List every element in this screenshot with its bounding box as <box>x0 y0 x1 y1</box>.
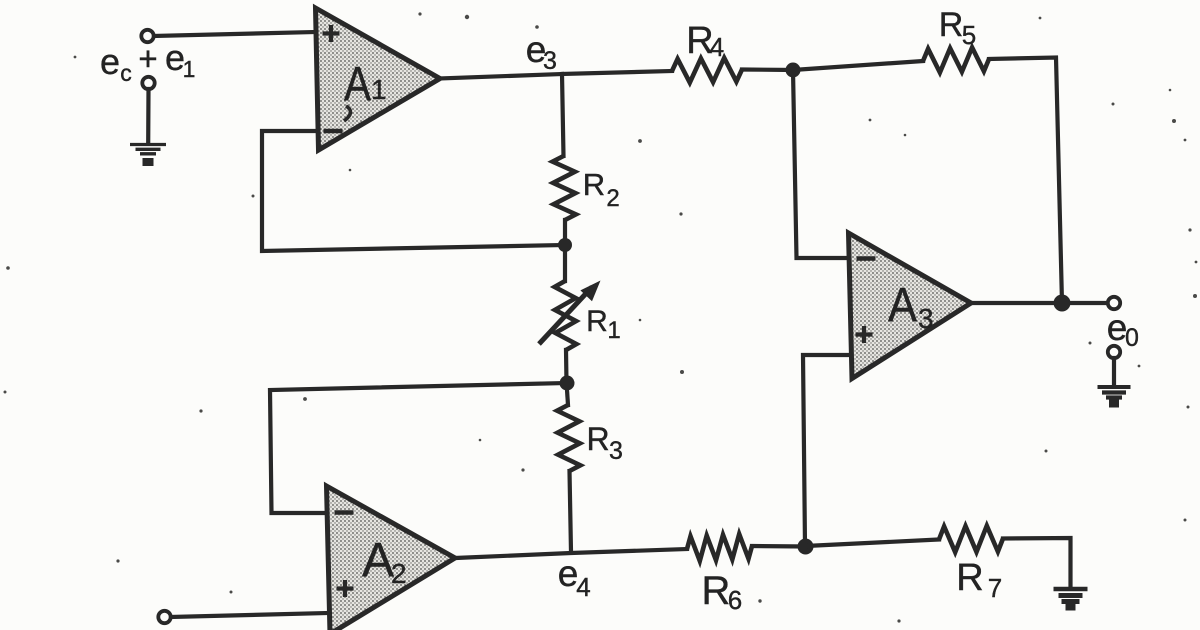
svg-text:A: A <box>362 534 394 587</box>
svg-text:1: 1 <box>183 56 196 82</box>
svg-text:A: A <box>344 58 371 111</box>
junction output node <box>1054 295 1071 312</box>
junction R1/R3/A2-feedback <box>560 376 575 391</box>
svg-text:3: 3 <box>543 47 557 75</box>
resistor R5 <box>923 48 989 73</box>
wire R3 to node e4 <box>570 471 572 552</box>
terminal input lower <box>142 77 154 89</box>
svg-text:6: 6 <box>728 585 742 615</box>
op-amp A1 <box>316 8 441 150</box>
svg-text:e: e <box>558 553 579 594</box>
label R1 <box>586 305 621 344</box>
svg-text:+: + <box>138 40 157 77</box>
ground R7 ground <box>1054 589 1088 607</box>
svg-text:0: 0 <box>1125 324 1139 352</box>
svg-text:R: R <box>586 305 608 338</box>
resistor R7 <box>939 526 1003 552</box>
label R6 <box>702 569 743 615</box>
label e3 <box>526 29 557 75</box>
svg-text:5: 5 <box>962 20 976 50</box>
label R3 <box>586 421 623 465</box>
svg-text:1: 1 <box>607 317 620 344</box>
wire junction to R5 <box>793 61 923 70</box>
wire A2 feedback: - input to junction <box>270 383 567 513</box>
label R7 <box>956 557 1002 603</box>
svg-text:R: R <box>939 6 964 44</box>
resistor R4 <box>672 58 742 83</box>
scan artifact squiggle near A1 <box>344 106 351 121</box>
wire junction down to A3 - input <box>793 70 849 258</box>
svg-text:4: 4 <box>710 32 724 62</box>
svg-text:R: R <box>583 167 605 202</box>
svg-text:2: 2 <box>391 558 407 589</box>
wire reference terminal to ground <box>1112 358 1116 385</box>
svg-text:2: 2 <box>606 185 619 212</box>
terminal output e0 <box>1108 297 1120 309</box>
svg-text:1: 1 <box>371 74 387 105</box>
svg-text:4: 4 <box>576 572 590 602</box>
wire A1 feedback: - input to junction <box>262 131 565 251</box>
op-amp A2 <box>327 486 456 630</box>
svg-text:A: A <box>888 279 917 332</box>
junction R6/R7/A3+ node <box>798 539 814 555</box>
wire lower terminal to ground <box>146 89 151 143</box>
wire R2 to junction <box>563 220 567 245</box>
wire junction to R1 <box>563 252 567 281</box>
svg-text:R: R <box>586 421 609 457</box>
svg-text:7: 7 <box>988 573 1002 603</box>
terminal output reference <box>1108 346 1120 358</box>
wire node e3 down to R2 <box>562 74 564 156</box>
wire lower input terminal to A2 + input <box>171 613 328 617</box>
resistor R6 <box>687 534 752 561</box>
wire junction up to A3 + input <box>803 355 849 546</box>
wire A3 output to terminal e0 <box>971 301 1107 305</box>
label R4 <box>686 20 724 62</box>
op-amp A3 <box>849 233 972 379</box>
junction R4/R5/A3- node <box>786 63 801 78</box>
resistor R3 <box>557 405 580 471</box>
wire junction to R3 <box>567 390 568 405</box>
ground output ground <box>1098 387 1131 404</box>
terminal input e_c+e_1 top <box>141 30 153 42</box>
wire R5 to A3 output node (top right corner) <box>989 58 1062 304</box>
wire A1 output to node e3 <box>440 74 562 79</box>
wire A2 output through node e4 to R6 <box>455 549 687 558</box>
ground input ground <box>130 145 166 163</box>
label e0 <box>1107 307 1139 352</box>
svg-text:R: R <box>702 569 731 613</box>
wire junction to R7 <box>806 540 940 547</box>
wire R1 to lower junction <box>564 350 569 383</box>
svg-text:R: R <box>956 557 983 599</box>
wire node e3 to R4 <box>562 71 672 74</box>
resistor R2 <box>553 156 576 220</box>
terminal lower input <box>158 611 170 623</box>
wire input terminal to A1 + input <box>154 32 316 36</box>
svg-text:c: c <box>120 60 132 86</box>
svg-text:e: e <box>100 41 120 82</box>
label R2 <box>583 167 620 212</box>
wire R7 to ground <box>1003 538 1071 588</box>
svg-text:3: 3 <box>918 303 934 334</box>
wire R4 to junction <box>742 67 793 72</box>
label R5 <box>939 6 977 50</box>
svg-text:3: 3 <box>609 437 623 465</box>
label e4 <box>558 553 591 602</box>
wire R6 to junction <box>752 544 806 549</box>
junction R2/R1/A1-feedback <box>558 238 572 252</box>
resistor R1 (variable) <box>539 281 601 351</box>
label e_c + e_1 <box>100 37 195 86</box>
